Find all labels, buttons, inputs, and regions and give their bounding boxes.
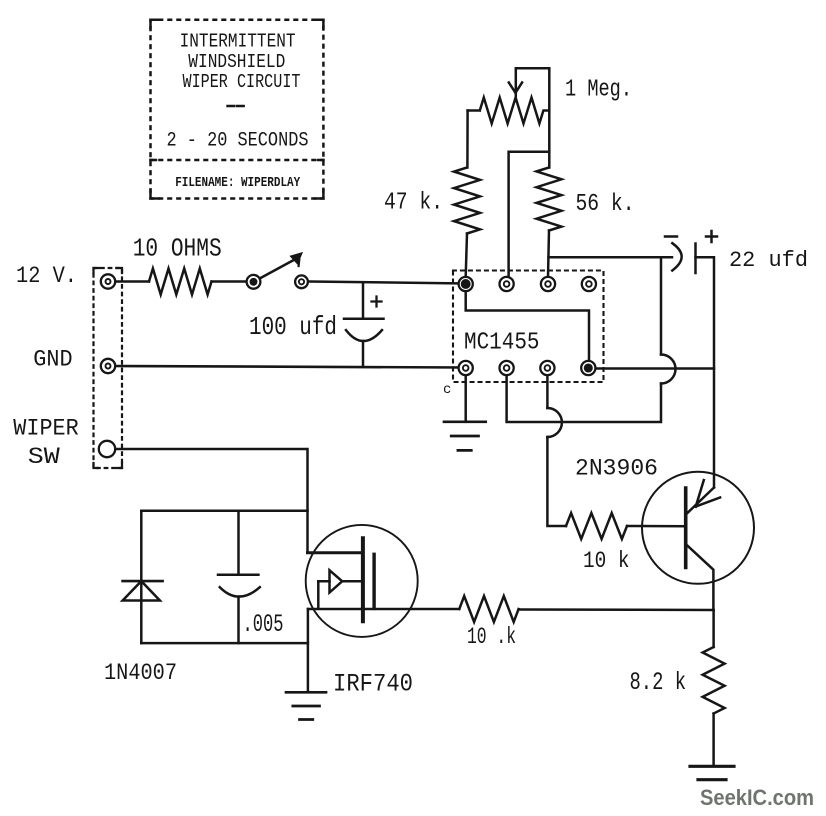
wire WIPER SW rail xyxy=(115,449,308,553)
pin top1 xyxy=(459,277,473,291)
svg-text:2N3906: 2N3906 xyxy=(575,456,658,482)
wire 56k to pin xyxy=(548,231,549,277)
svg-text:100 ufd: 100 ufd xyxy=(249,312,337,342)
MOSFET arrow triangle xyxy=(330,570,343,592)
pin bot1 xyxy=(459,361,473,375)
wire pin1 to ground xyxy=(464,376,467,422)
connector dashed box xyxy=(94,268,123,468)
snubber top wire xyxy=(141,510,307,513)
capacitor .005 top lead xyxy=(237,511,240,575)
capacitor .005 plates xyxy=(218,575,260,597)
wire hop over pin4 line xyxy=(661,355,676,384)
MOSFET source drop to ground xyxy=(307,609,310,692)
svg-text:SW: SW xyxy=(28,444,60,470)
svg-text:WINDSHIELD: WINDSHIELD xyxy=(188,51,285,73)
terminal 12V xyxy=(101,274,115,288)
IC internal wire xyxy=(466,284,589,368)
resistor 47 k xyxy=(454,168,480,234)
transistor collector xyxy=(686,544,714,610)
svg-text:12 V.: 12 V. xyxy=(16,263,77,289)
wire pin3 chain with hop xyxy=(547,376,566,527)
svg-text:INTERMITTENT: INTERMITTENT xyxy=(180,31,296,53)
wire collector node to 8.2k xyxy=(712,610,715,647)
transistor base bar xyxy=(684,488,688,568)
svg-text:47 k.: 47 k. xyxy=(384,190,443,217)
svg-text:10 OHMS: 10 OHMS xyxy=(133,234,222,264)
potentiometer 1 Meg body xyxy=(468,98,550,124)
ground under IC xyxy=(444,422,486,451)
transistor emitter xyxy=(686,488,714,515)
MOSFET gate bar xyxy=(361,538,365,621)
plus sign 100 ufd xyxy=(372,297,382,307)
capacitor 100 ufd bottom lead xyxy=(362,341,365,367)
resistor 10 k gate xyxy=(459,596,518,622)
wire resistor to switch xyxy=(212,280,247,283)
diode D1 1N4007 wire xyxy=(140,511,143,643)
transistor Q1 2N3906 circle xyxy=(642,472,754,584)
pin top4 xyxy=(582,277,596,291)
pin dots xyxy=(106,279,592,372)
pin bot4 xyxy=(581,361,595,375)
MOSFET channel bar xyxy=(372,554,375,608)
wire x661 vertical with hop xyxy=(507,257,661,422)
svg-text:WIPER: WIPER xyxy=(13,416,79,442)
MOSFET Q2 IRF740 circle xyxy=(306,525,418,637)
ground under IRF740 xyxy=(286,692,326,719)
wire 12V lead xyxy=(116,280,149,283)
svg-text:FILENAME: WIPERDLAY: FILENAME: WIPERDLAY xyxy=(175,176,301,191)
title dashes xyxy=(228,105,244,108)
wire GND rail xyxy=(116,366,466,368)
wire 8.2k to ground xyxy=(712,714,715,767)
IC pin circles xyxy=(99,274,596,457)
svg-text:.005: .005 xyxy=(243,610,284,639)
svg-text:SeekIC.com: SeekIC.com xyxy=(700,785,814,810)
terminal GND xyxy=(101,359,115,373)
wire switch to IC pin xyxy=(310,282,466,284)
wire pot left to 47k xyxy=(466,111,469,168)
ground bottom right xyxy=(690,766,734,779)
transistor emitter arrow xyxy=(696,480,720,507)
MOSFET arrow drop wire xyxy=(317,581,320,608)
svg-text:10 .k: 10 .k xyxy=(467,624,516,650)
snubber bottom wire xyxy=(141,642,308,645)
pin top2 xyxy=(500,277,514,291)
wire hop pin3 over 422 line xyxy=(547,408,562,437)
diode cathode bar xyxy=(123,580,163,583)
wire pin4 to emitter rail xyxy=(588,367,714,370)
resistor 10 OHMS xyxy=(149,269,212,295)
switch S1 blade xyxy=(254,258,297,282)
MOSFET arrow line xyxy=(318,580,363,583)
wire 47k to pin xyxy=(466,234,467,277)
svg-text:IRF740: IRF740 xyxy=(333,670,413,699)
plus sign 22 ufd xyxy=(706,231,717,242)
svg-text:56 k.: 56 k. xyxy=(576,191,635,218)
svg-text:10 k: 10 k xyxy=(583,548,630,574)
source line to 10k xyxy=(308,608,459,611)
wire 10k to base xyxy=(627,525,686,528)
pin bot3 xyxy=(540,361,554,375)
IC MC1455 dashed box xyxy=(453,271,604,383)
pin top3 xyxy=(541,277,555,291)
capacitor 22 ufd plates xyxy=(672,243,695,273)
svg-text:1N4007: 1N4007 xyxy=(104,660,177,686)
wire 10k to collector node xyxy=(519,608,714,611)
resistor 10 k base xyxy=(566,513,627,539)
svg-text:c: c xyxy=(443,382,451,398)
capacitor .005 bottom lead xyxy=(237,597,240,644)
wire pot tap to pin 7 xyxy=(509,152,550,277)
minus sign 22 ufd xyxy=(665,235,677,238)
pin bot2 xyxy=(500,361,514,375)
svg-text:8.2 k: 8.2 k xyxy=(630,668,687,697)
capacitor 100 ufd plates xyxy=(344,319,384,341)
diode triangle xyxy=(123,581,160,600)
wire top rail to cap 22ufd xyxy=(549,256,673,259)
svg-text:GND: GND xyxy=(33,347,72,373)
capacitor 100 ufd top lead xyxy=(362,282,365,318)
switch arrow head xyxy=(291,253,303,264)
wire 22ufd plus lead xyxy=(696,257,715,487)
title box divider xyxy=(151,159,324,162)
resistor 8.2 k xyxy=(703,647,725,714)
potentiometer wiper arrow xyxy=(509,83,522,93)
svg-text:22 ufd: 22 ufd xyxy=(729,248,808,273)
svg-text:WIPER CIRCUIT: WIPER CIRCUIT xyxy=(183,71,301,93)
switch contact 2 xyxy=(295,275,308,288)
svg-text:1 Meg.: 1 Meg. xyxy=(565,77,632,104)
svg-text:MC1455: MC1455 xyxy=(464,330,540,357)
title box dashed border xyxy=(151,20,324,199)
MOSFET gate wire xyxy=(308,551,363,554)
resistor 56 k xyxy=(537,168,562,231)
terminal WIPER SW xyxy=(99,441,115,457)
potentiometer top loop xyxy=(516,68,550,167)
switch contact 1 xyxy=(247,275,261,289)
svg-text:2 - 20 SECONDS: 2 - 20 SECONDS xyxy=(167,129,309,152)
